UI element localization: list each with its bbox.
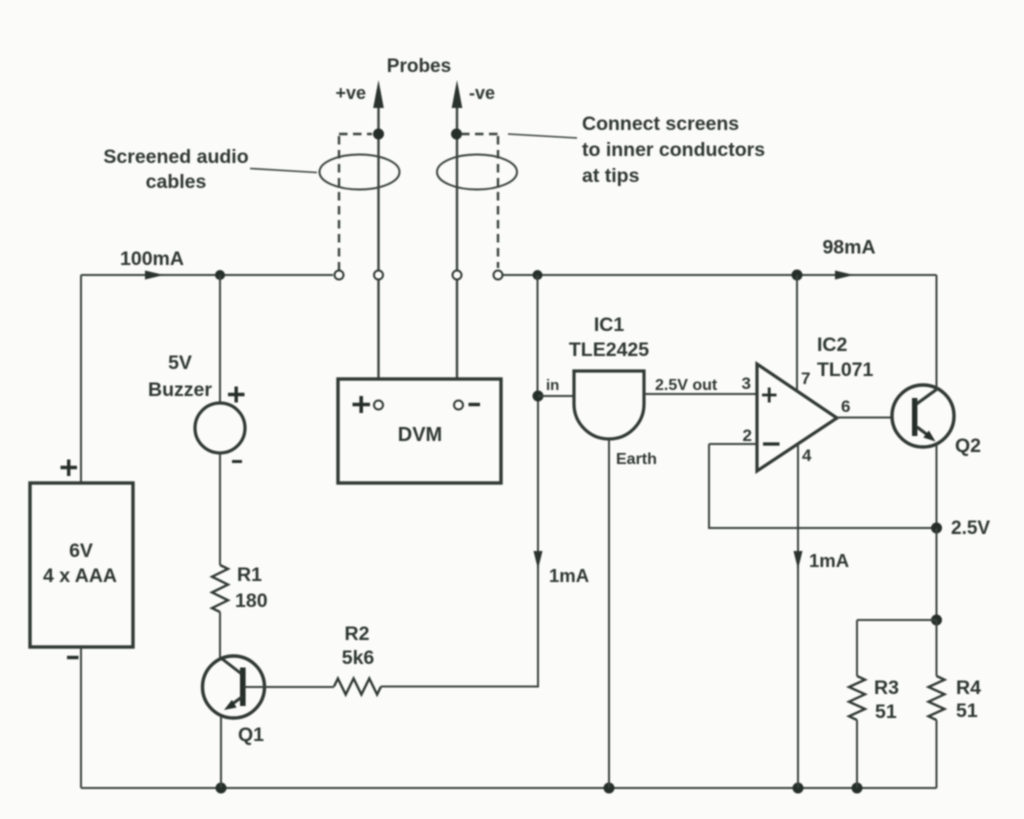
node dot on +ve probe screen tie <box>373 129 384 140</box>
buzzer BZ1 circle <box>195 403 245 453</box>
wire: bottom ground rail <box>81 787 937 789</box>
node junction dot at IC1 column <box>533 270 543 280</box>
svg-text:51: 51 <box>875 701 897 723</box>
svg-text:R1: R1 <box>237 564 262 586</box>
svg-text:Buzzer: Buzzer <box>148 379 212 401</box>
dashed screen wire right horizontal <box>461 133 498 135</box>
transistor Q2 circle <box>892 385 954 447</box>
node dot R3 at rail <box>852 783 863 794</box>
wire: Q1 emitter to bottom rail <box>220 717 222 788</box>
svg-text:in: in <box>546 377 559 394</box>
battery minus sign <box>67 656 79 659</box>
dashed screen wire left vertical <box>338 136 340 270</box>
wire: left battery feed vertical <box>80 275 82 483</box>
wire: R3 bottom lead <box>856 720 858 788</box>
svg-text:6: 6 <box>841 397 850 416</box>
probe +ve vertical wire <box>377 96 379 401</box>
wire: op-amp pin 4 to bottom rail <box>797 444 799 788</box>
svg-text:Earth: Earth <box>616 451 657 468</box>
svg-text:R3: R3 <box>874 677 899 699</box>
transistor Q1 collector stroke <box>221 658 241 674</box>
wire: IC1 out to op-amp pin 3 <box>644 393 757 395</box>
svg-text:R2: R2 <box>345 623 370 645</box>
arrow 1mA down (centre column) <box>534 551 543 569</box>
DVM box <box>338 379 501 483</box>
probe -ve arrowhead <box>452 80 463 108</box>
pointer line to left ellipse <box>250 169 317 173</box>
wire: top-right horizontal 98mA rail <box>502 274 937 276</box>
screen cable ellipse left <box>320 155 400 190</box>
transistor Q2 emitter stroke with arrow <box>917 427 929 436</box>
wire: op-amp pin 7 supply <box>796 275 798 391</box>
open terminal circle left screen <box>335 271 344 280</box>
dashed screen wire right vertical <box>497 136 499 268</box>
svg-text:Q2: Q2 <box>955 435 981 457</box>
svg-text:5V: 5V <box>168 352 192 374</box>
svg-text:IC2: IC2 <box>817 334 848 356</box>
battery B1 box 6V <box>30 483 133 647</box>
svg-text:2.5V: 2.5V <box>951 518 990 539</box>
svg-text:2: 2 <box>743 426 752 445</box>
wire: R4 bottom lead <box>936 720 938 788</box>
svg-text:2.5V out: 2.5V out <box>655 377 718 394</box>
svg-text:IC1: IC1 <box>594 314 625 336</box>
svg-text:Screened audio: Screened audio <box>103 146 248 168</box>
arrow 1mA down (pin 4 column) <box>794 551 803 569</box>
wire: R3 top lead <box>856 620 858 676</box>
open terminal circle right screen <box>494 271 503 280</box>
wire: R1 to Q1 collector <box>219 612 221 661</box>
svg-text:TL071: TL071 <box>817 359 874 381</box>
svg-text:-ve: -ve <box>469 83 495 103</box>
arrow 98mA current direction <box>835 271 854 280</box>
svg-text:TLE2425: TLE2425 <box>569 339 649 361</box>
node junction dot resistor tee <box>931 615 942 626</box>
battery plus sign <box>61 460 78 477</box>
open terminal circle +ve probe <box>374 271 383 280</box>
svg-text:4 x AAA: 4 x AAA <box>43 565 117 587</box>
svg-text:+ve: +ve <box>335 83 366 103</box>
wire: in to IC1 <box>538 395 574 397</box>
wire: buzzer feed vertical <box>219 275 221 404</box>
transistor Q1 circle <box>203 656 265 718</box>
svg-text:cables: cables <box>146 171 207 193</box>
node dot op-amp pin4 at rail <box>793 783 804 794</box>
node junction dot at op-amp pin 7 column <box>792 270 803 281</box>
svg-text:1mA: 1mA <box>549 565 589 586</box>
wire: pin 2 feedback stub <box>709 443 757 445</box>
svg-text:Q1: Q1 <box>238 724 264 746</box>
transistor Q2 collector stroke <box>917 390 937 405</box>
wire: 2.5V node down to resistor tee <box>936 528 938 620</box>
svg-text:100mA: 100mA <box>120 248 184 270</box>
resistor R3 zigzag <box>849 676 865 720</box>
svg-text:180: 180 <box>235 590 268 612</box>
node 2.5V junction dot <box>931 523 942 534</box>
node junction dot IC1 in <box>533 391 544 402</box>
screen cable ellipse right <box>437 155 517 190</box>
transistor Q2 base bar <box>912 398 917 436</box>
wire: feedback loop from 2.5V node <box>709 444 937 528</box>
svg-text:5k6: 5k6 <box>342 647 375 669</box>
resistor R1 zigzag <box>212 565 228 612</box>
probe -ve vertical wire <box>456 96 458 401</box>
open terminal circle -ve probe <box>453 271 462 280</box>
svg-text:6V: 6V <box>69 540 93 562</box>
wire: top-left horizontal 100mA rail <box>81 274 333 276</box>
svg-text:51: 51 <box>956 700 978 722</box>
wire: R4 top lead <box>936 620 938 676</box>
wire: battery negative to bottom rail <box>80 647 82 788</box>
wire: centre column from top rail <box>537 275 539 396</box>
transistor Q1 base bar <box>240 668 246 707</box>
regulator IC1 TLE2425 outline <box>574 371 644 439</box>
wire: buzzer to R1 <box>219 453 221 565</box>
node dot IC1 earth at rail <box>604 783 615 794</box>
wire: R2 to centre column <box>381 396 538 687</box>
wire: Q2 emitter down to 2.5V node <box>936 444 938 528</box>
wire: IC1 earth to bottom rail <box>608 439 610 788</box>
pointer line from right screen to note <box>508 134 577 138</box>
op-amp plus input sign <box>762 388 777 403</box>
svg-text:3: 3 <box>742 374 751 393</box>
buzzer plus sign <box>228 387 245 403</box>
svg-text:Probes: Probes <box>387 56 451 77</box>
DVM minus sign <box>469 403 481 406</box>
node dot on -ve probe screen tie <box>451 129 462 140</box>
wire: tee across to R3 <box>857 619 937 621</box>
svg-text:Connect screens: Connect screens <box>582 113 739 135</box>
wire: Q1 base to R2 <box>244 686 334 688</box>
buzzer minus sign <box>232 460 242 463</box>
svg-text:to inner conductors: to inner conductors <box>582 139 765 161</box>
resistor R2 zigzag <box>334 679 381 695</box>
svg-text:R4: R4 <box>956 677 981 699</box>
node junction dot at buzzer tap <box>215 270 225 280</box>
svg-text:DVM: DVM <box>398 424 442 446</box>
wire: Q2 collector to top rail <box>936 275 938 390</box>
transistor Q1 emitter stroke with arrow <box>233 697 243 704</box>
svg-text:7: 7 <box>801 369 810 388</box>
svg-text:4: 4 <box>802 446 812 465</box>
resistor R4 zigzag <box>929 676 945 720</box>
DVM - terminal circle <box>454 401 463 410</box>
probe +ve arrowhead <box>373 80 384 108</box>
svg-text:98mA: 98mA <box>822 237 875 259</box>
svg-text:at tips: at tips <box>582 165 640 187</box>
op-amp minus input sign <box>763 442 780 445</box>
DVM + terminal circle <box>374 401 383 410</box>
DVM plus sign <box>353 396 371 413</box>
dashed screen wire left horizontal <box>339 133 372 135</box>
svg-text:1mA: 1mA <box>809 550 849 571</box>
op-amp IC2 triangle <box>757 364 837 471</box>
wire: op-amp output to Q2 base <box>837 417 909 419</box>
arrow 100mA current direction <box>145 271 164 280</box>
node dot Q1 emitter at rail <box>216 783 227 794</box>
